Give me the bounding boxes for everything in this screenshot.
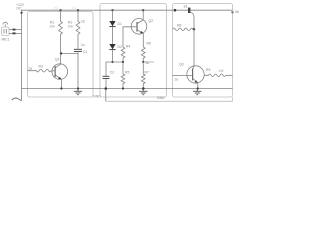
svg-text:D1: D1 (118, 22, 122, 26)
svg-text:R3: R3 (39, 64, 43, 68)
svg-text:n1: n1 (55, 6, 59, 10)
svg-text:R6: R6 (147, 41, 151, 45)
svg-text:2b: 2b (146, 61, 150, 65)
svg-text:MIC1: MIC1 (2, 37, 10, 41)
svg-text:1a: 1a (28, 66, 32, 70)
svg-text:1b: 1b (81, 20, 85, 24)
svg-text:S1: S1 (184, 4, 188, 8)
svg-text:R8: R8 (177, 24, 181, 28)
svg-text:GND: GND (157, 96, 165, 100)
svg-text:DC: DC (17, 6, 22, 10)
svg-text:1W: 1W (219, 69, 225, 73)
svg-text:C2: C2 (110, 71, 114, 75)
svg-text:n2: n2 (73, 6, 77, 10)
svg-text:GND: GND (93, 95, 101, 99)
svg-text:3a: 3a (175, 77, 179, 81)
svg-text:Q3: Q3 (179, 63, 184, 67)
svg-text:Q2: Q2 (149, 19, 154, 23)
svg-text:10k: 10k (68, 25, 74, 29)
svg-text:R9: R9 (206, 68, 210, 72)
svg-text:10k: 10k (50, 25, 56, 29)
svg-text:R7: R7 (145, 70, 149, 74)
svg-text:3b: 3b (235, 10, 239, 14)
svg-text:Q1: Q1 (55, 58, 60, 62)
svg-text:1c: 1c (81, 43, 85, 47)
svg-text:R4: R4 (126, 45, 130, 49)
svg-text:D2: D2 (118, 45, 122, 49)
svg-text:C1: C1 (83, 50, 87, 54)
svg-text:R5: R5 (125, 70, 129, 74)
